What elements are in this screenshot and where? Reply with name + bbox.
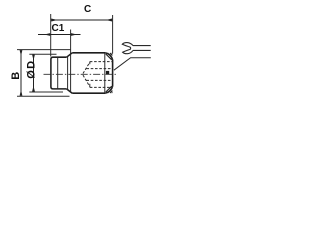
dimension C1 line bbox=[38, 34, 81, 36]
hidden hex socket line outer top (dashed y=61.6) bbox=[90, 61, 113, 63]
dimension C1 extension line right (x=70.6) bbox=[70, 30, 72, 54]
inner vertical line near left face (x=57.7) bbox=[57, 58, 59, 89]
dimension C extension line right (x=112.6) bbox=[112, 15, 114, 54]
centerline (dash-dot) bbox=[44, 73, 118, 75]
dimension OD arrowhead bottom bbox=[32, 86, 35, 92]
top-right chamfer: diagonal edge bbox=[106, 54, 112, 60]
hidden socket cone bottom (dashed diagonal) bbox=[83, 75, 90, 87]
dimension OD line (x=33.5) bbox=[33, 55, 35, 92]
dimension C extension line left (x=50.7) bbox=[50, 14, 52, 57]
svg-text:C1: C1 bbox=[52, 23, 65, 34]
part body outline: big section top and bottom edges bbox=[72, 53, 105, 93]
part right face bbox=[112, 60, 114, 87]
svg-text:ØD: ØD bbox=[26, 59, 38, 78]
dimension B arrowhead bottom bbox=[20, 90, 23, 96]
dimension C1 arrowhead right (outside) bbox=[71, 33, 77, 36]
top-right chamfer hatch stripes bbox=[108, 53, 113, 58]
svg-text:B: B bbox=[10, 72, 22, 80]
wrench icon handle bottom line bbox=[133, 49, 151, 51]
seal ring edge vertical (x=67.6) bbox=[67, 57, 69, 90]
bottom-right chamfer: diagonal edge bbox=[106, 86, 112, 92]
bottom-right chamfer hatch stripes bbox=[108, 88, 113, 93]
dimension OD extension line top (y=54.2) bbox=[29, 53, 56, 55]
svg-text:C: C bbox=[84, 4, 91, 15]
part body outline: left face with corner radii, small section bbox=[51, 53, 72, 93]
top-right chamfer: outer arc bbox=[105, 53, 112, 60]
hidden socket cone top (dashed diagonal) bbox=[83, 62, 90, 74]
hidden socket end vertical top dash bbox=[89, 62, 91, 66]
wrench icon handle top line bbox=[133, 45, 151, 47]
dimension C line bbox=[51, 19, 112, 21]
dimension C1 arrowhead left (outside) bbox=[44, 33, 50, 36]
dimension B extension line bottom (y=96.2) bbox=[17, 95, 70, 97]
hidden hex socket line inner bottom (dashed y=80.4) bbox=[86, 79, 112, 81]
hidden hex socket line inner top (dashed y=68.6) bbox=[86, 68, 112, 70]
wrench leader line to hex bbox=[114, 58, 151, 70]
dimension OD extension line bottom (y=92) bbox=[29, 91, 63, 93]
dimension C arrowhead right bbox=[106, 19, 112, 22]
dark square marker on face near centerline bbox=[106, 71, 109, 75]
hidden hex socket line outer bottom (dashed y=87.4) bbox=[90, 86, 113, 88]
dimension C arrowhead left bbox=[51, 19, 57, 22]
hidden socket end vertical bottom dash bbox=[89, 84, 91, 88]
dimension B extension line top (y=49.6) bbox=[17, 49, 71, 51]
dimension OD arrowhead top bbox=[32, 55, 35, 61]
dimension B arrowhead top bbox=[20, 50, 23, 56]
wrench icon head bbox=[122, 43, 133, 54]
dimension B line (x=21) bbox=[20, 50, 22, 96]
bottom-right chamfer: outer arc bbox=[105, 86, 112, 93]
chamfer boundary vertical line on face (x=104.8) bbox=[104, 53, 106, 93]
seal ring edge vertical (x=70.6, inside part) bbox=[70, 54, 72, 92]
